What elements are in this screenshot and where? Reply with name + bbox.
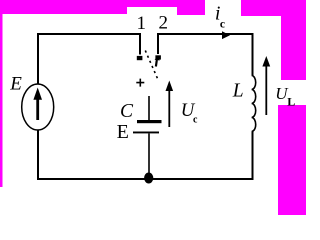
voltage source E1 arrowhead	[33, 88, 42, 100]
wire: left vertical wire upper	[37, 33, 39, 85]
plus sign of capacitor polarity	[136, 79, 144, 87]
wire: bottom wire	[37, 178, 254, 180]
switch movement arrowhead	[155, 56, 160, 61]
svg-text:L: L	[232, 80, 244, 101]
svg-text:c: c	[220, 18, 225, 30]
svg-text:E: E	[117, 121, 129, 143]
voltage source E1 arrow shaft	[36, 99, 39, 120]
switch stub to contact 2	[157, 33, 159, 54]
switch contact 2 terminal square	[156, 56, 161, 60]
switch contact 1 terminal square	[137, 56, 142, 60]
voltage Uc arrowhead	[166, 81, 174, 92]
capacitor C top lead	[148, 96, 150, 121]
wire: top wire left section	[38, 33, 140, 35]
svg-text:c: c	[193, 115, 198, 126]
node: junction dot on bottom wire	[144, 173, 153, 184]
wire: right vertical wire lower	[252, 132, 254, 181]
wire: left vertical wire lower	[37, 130, 39, 179]
svg-text:2: 2	[159, 13, 169, 34]
switch stub to contact 1	[139, 33, 141, 55]
voltage Uc arrow shaft	[168, 90, 170, 127]
svg-text:E: E	[9, 73, 22, 94]
magenta background strip top-right	[241, 0, 306, 16]
magenta background strip top-middle thin	[127, 0, 177, 7]
svg-text:C: C	[120, 101, 134, 122]
magenta background right column lower	[278, 105, 306, 215]
voltage UL arrow shaft	[265, 66, 267, 115]
switch blade dashed travel line	[145, 51, 158, 82]
capacitor C bottom plate	[133, 132, 159, 134]
current ic arrowhead on top wire	[222, 31, 230, 39]
switch movement arrow shaft	[155, 60, 158, 67]
magenta background left edge line	[0, 14, 3, 187]
wire: top wire right section	[158, 33, 253, 35]
wire: right vertical wire upper	[252, 33, 254, 76]
magenta background strip top-left	[0, 0, 127, 14]
voltage UL arrowhead	[262, 56, 270, 67]
svg-text:1: 1	[137, 13, 147, 34]
voltage source E1 circle	[22, 84, 54, 130]
capacitor C bottom lead	[148, 134, 150, 179]
svg-text:L: L	[287, 94, 295, 108]
capacitor C top plate	[137, 120, 162, 123]
magenta background block above switch	[177, 0, 205, 15]
inductor L coil arcs	[252, 76, 256, 132]
magenta background right column upper	[281, 14, 306, 80]
